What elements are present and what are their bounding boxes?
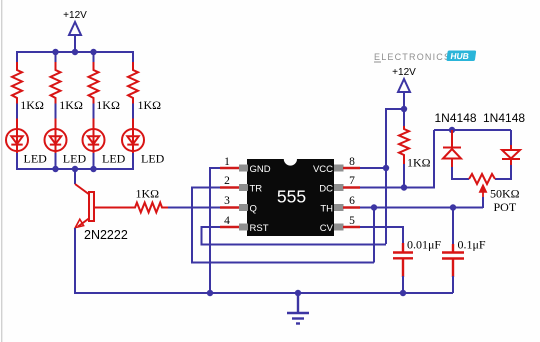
pin stub 1 bbox=[239, 165, 248, 172]
wire TH drop to C2 bbox=[452, 208, 454, 246]
pin 7 red lead bbox=[343, 186, 360, 189]
junction TH C2 bbox=[450, 204, 456, 210]
pin stub 6 bbox=[334, 204, 344, 211]
svg-text:1: 1 bbox=[224, 156, 230, 168]
pin stub 7 bbox=[334, 184, 344, 191]
junction ground rail earth bbox=[295, 290, 301, 296]
+12V supply arrow left bbox=[69, 22, 81, 52]
svg-text:LED: LED bbox=[24, 152, 48, 166]
svg-text:1KΩ: 1KΩ bbox=[20, 98, 44, 112]
svg-text:1KΩ: 1KΩ bbox=[96, 98, 120, 112]
wire LED bottom rail bbox=[17, 168, 133, 170]
ground symbol bbox=[287, 293, 309, 324]
wire C2 to ground bbox=[452, 276, 454, 293]
wire D2 to pot bbox=[495, 165, 511, 179]
junction ground rail pin1 bbox=[207, 290, 213, 296]
svg-text:GND: GND bbox=[250, 164, 271, 175]
junction pin8 bbox=[383, 165, 389, 171]
page edge artifact bbox=[1, 0, 2, 342]
op-amp U1 555 timer body bbox=[247, 159, 334, 236]
LED3 bbox=[83, 101, 105, 153]
svg-text:8: 8 bbox=[349, 156, 355, 168]
svg-text:0.01μF: 0.01μF bbox=[407, 238, 441, 252]
svg-text:1KΩ: 1KΩ bbox=[136, 187, 160, 201]
pin 2 red lead bbox=[220, 186, 239, 189]
resistor R4 1K bbox=[128, 62, 138, 101]
pin 3 red lead bbox=[220, 206, 239, 209]
resistor R5 1K base bbox=[94, 203, 168, 213]
svg-text:2: 2 bbox=[224, 175, 230, 187]
junction top rail at branch3 bbox=[90, 49, 96, 55]
svg-text:0.1μF: 0.1μF bbox=[458, 238, 486, 252]
wire pin8 VCC node bbox=[360, 109, 404, 244]
pin stub 2 bbox=[239, 184, 248, 191]
pin stub 4 bbox=[239, 224, 248, 231]
wire D2 drop bbox=[510, 130, 512, 145]
wire branch1 bottom bbox=[16, 153, 18, 170]
wire branch4 top bbox=[132, 51, 134, 63]
junction top rail at branch2 bbox=[52, 49, 58, 55]
svg-text:1KΩ: 1KΩ bbox=[138, 98, 162, 112]
svg-text:VCC: VCC bbox=[313, 164, 333, 175]
pin 4 red lead bbox=[220, 226, 239, 229]
svg-text:1KΩ: 1KΩ bbox=[59, 98, 83, 112]
pin 8 red lead bbox=[343, 167, 360, 170]
pin 5 red lead bbox=[343, 226, 360, 229]
svg-text:3: 3 bbox=[224, 195, 230, 207]
junction DC at R6 bbox=[401, 184, 407, 190]
junction +12V corner bbox=[401, 106, 407, 112]
svg-text:5: 5 bbox=[349, 215, 355, 227]
svg-text:2N2222: 2N2222 bbox=[84, 228, 128, 242]
+12V supply arrow right bbox=[398, 79, 410, 109]
diode D1 (cathode up) bbox=[443, 130, 461, 168]
wire pin4 RST bbox=[202, 227, 387, 245]
svg-text:1KΩ: 1KΩ bbox=[407, 156, 431, 170]
svg-text:TR: TR bbox=[250, 184, 263, 195]
wire diode rail bbox=[434, 129, 511, 131]
junction top rail at +12V bbox=[72, 49, 78, 55]
resistor R3 1K bbox=[89, 62, 99, 101]
junction bottom rail at branch2 bbox=[52, 166, 58, 172]
junction bottom rail at branch3 bbox=[90, 166, 96, 172]
svg-text:LED: LED bbox=[102, 152, 126, 166]
svg-text:LED: LED bbox=[141, 152, 165, 166]
wire C1 to ground bbox=[402, 276, 404, 293]
svg-text:Q: Q bbox=[250, 204, 257, 215]
wire branch2 bottom bbox=[55, 153, 57, 169]
wire TH to TR vertical bbox=[373, 208, 375, 263]
resistor R6 1K right bbox=[399, 126, 409, 164]
svg-text:4: 4 bbox=[224, 215, 230, 227]
svg-text:POT: POT bbox=[494, 200, 517, 214]
capacitor C2 0.1uF bbox=[442, 244, 464, 277]
capacitor C1 0.01uF bbox=[393, 243, 413, 277]
svg-text:TH: TH bbox=[320, 204, 333, 215]
transistor Q1 2N2222 bbox=[75, 184, 94, 228]
svg-text:555: 555 bbox=[277, 186, 306, 206]
wire wiper to TH bbox=[482, 197, 484, 208]
wire branch4 bottom bbox=[132, 153, 134, 170]
wire pin7 DC node bbox=[360, 130, 434, 188]
wire branch1 top bbox=[16, 51, 18, 63]
junction bottom rail collector tap bbox=[72, 166, 78, 172]
pin stub 5 bbox=[334, 224, 344, 231]
wire R6 to DC node bbox=[403, 163, 405, 187]
svg-text:LED: LED bbox=[63, 152, 87, 166]
wire top rail bbox=[17, 51, 133, 53]
wire pin6 TH node bbox=[360, 207, 483, 209]
wire branch3 bottom bbox=[93, 153, 95, 169]
pin stub 3 bbox=[239, 204, 248, 211]
logo underline bbox=[374, 61, 381, 63]
svg-text:CV: CV bbox=[320, 223, 334, 234]
svg-text:1N4148: 1N4148 bbox=[435, 111, 477, 125]
potentiometer wiper arrow bbox=[480, 186, 486, 198]
LED2 bbox=[45, 101, 67, 153]
resistor R1 1K bbox=[12, 62, 22, 101]
svg-text:6: 6 bbox=[349, 195, 355, 207]
LED4 bbox=[122, 101, 144, 153]
wire branch2 top bbox=[55, 52, 57, 63]
junction ground rail C1 bbox=[400, 290, 406, 296]
wire pin5 CV bbox=[360, 227, 403, 244]
diode D2 (cathode down) bbox=[502, 144, 520, 166]
wire +12V to R6 bbox=[403, 109, 405, 127]
logo HUB box bbox=[446, 51, 476, 62]
pin 6 red lead bbox=[343, 206, 360, 209]
svg-text:1N4148: 1N4148 bbox=[483, 111, 525, 125]
svg-text:DC: DC bbox=[319, 184, 333, 195]
wire D1 to pot bbox=[452, 167, 469, 179]
svg-text:ELECTRONICS: ELECTRONICS bbox=[374, 52, 451, 62]
wire branch3 top bbox=[93, 52, 95, 63]
svg-text:RST: RST bbox=[250, 223, 269, 234]
wire collector drop bbox=[74, 169, 76, 184]
resistor R2 1K bbox=[51, 62, 61, 101]
potentiometer 50K track bbox=[469, 174, 495, 184]
svg-text:+12V: +12V bbox=[63, 10, 87, 21]
svg-text:7: 7 bbox=[349, 175, 355, 187]
wire pin2 TR bbox=[192, 188, 374, 263]
junction TH pin6 bbox=[371, 204, 377, 210]
junction diode rail D1 bbox=[449, 127, 455, 133]
wire pin1 GND bbox=[210, 168, 221, 293]
svg-text:50KΩ: 50KΩ bbox=[490, 186, 520, 200]
svg-text:HUB: HUB bbox=[450, 51, 470, 61]
wire base to pin3 bbox=[168, 207, 222, 209]
pin 1 red lead bbox=[220, 167, 239, 170]
wire ground rail bbox=[75, 292, 453, 294]
LED1 bbox=[6, 101, 28, 153]
pin stub 8 bbox=[334, 165, 344, 172]
svg-text:+12V: +12V bbox=[392, 67, 416, 78]
wire emitter drop bbox=[74, 228, 76, 294]
